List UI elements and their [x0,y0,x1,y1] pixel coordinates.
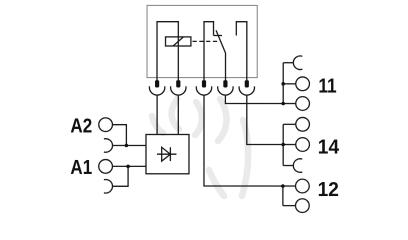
stub 11 bottom [283,103,296,105]
stub 14 mid [283,144,296,146]
stub 12 bottom [283,205,296,207]
wire A1 socket to junction [113,166,128,186]
terminal A1 circle [99,160,113,174]
device outline box [147,5,257,77]
spare socket 11 (open-right arc) [293,56,302,70]
terminal circle 12b [296,199,310,213]
terminal circle 14a [296,117,310,131]
wire terminal3 to 12 bus [204,95,283,186]
bus 12 [282,186,284,206]
mechanical link (dashed) [193,40,220,42]
wire terminal2 to rectifier [177,95,179,134]
junction A2 [125,144,129,148]
terminal pin 3 [202,80,206,87]
terminal pin 1 [155,80,159,87]
terminal pin 2 [176,80,180,87]
wire terminal1 to rectifier [156,95,158,134]
contact NO lead (terminal 14 side) [236,22,247,81]
terminal socket 3 [196,86,211,95]
stub 14 spare [283,165,294,167]
junction 12 [281,184,285,188]
wire terminal4 to 11 bus [225,95,283,103]
terminal circle 14b [296,138,310,152]
junction A1 [126,165,130,169]
watermark swirl (decorative) [152,99,248,196]
rectifier box [146,134,189,173]
wire A1 to rectifier [112,165,146,167]
contact lever (common, terminal 11) [216,30,226,80]
terminal circle 11a [296,77,310,91]
bus 11 [282,63,284,104]
terminal socket 1 [149,86,164,95]
relay coil rectangle [166,37,191,46]
A1 spare socket (open-left arc) [104,179,113,193]
svg-text:11: 11 [318,75,336,97]
contact NC fixed tick [214,35,223,37]
stub 14 top [283,123,296,125]
diode D1 [157,147,177,161]
stub 11 mid [283,83,296,85]
terminal A2 circle [99,118,113,132]
terminal socket 4 [218,86,233,95]
junction 11 bottom [281,102,285,106]
svg-text:A2: A2 [70,115,92,137]
contact NC lead (terminal 12 side) [204,22,214,81]
A2 spare socket (open-left arc) [104,139,113,153]
stub 12 top [283,185,296,187]
terminal socket 5 [239,86,254,95]
relay coil K leads [157,22,178,81]
stub 11 spare [283,62,294,64]
wire terminal5 to 14 bus [247,95,283,144]
spare socket 14 (open-right arc) [293,159,302,173]
wire A2 socket row to rectifier [113,144,146,146]
terminal socket 2 [171,86,186,95]
terminal pin 4 [223,80,227,87]
terminal circle 12a [296,179,310,193]
bus 14 [282,124,284,165]
terminal circle 11b [296,97,310,111]
terminal pin 5 [245,80,249,87]
junction 14 [281,143,285,147]
relay coil diagonal [173,37,183,46]
wire A2 to junction [112,125,126,146]
svg-text:A1: A1 [70,157,92,179]
svg-text:12: 12 [318,179,339,201]
svg-text:14: 14 [318,137,340,159]
junction 11 mid [281,82,285,86]
